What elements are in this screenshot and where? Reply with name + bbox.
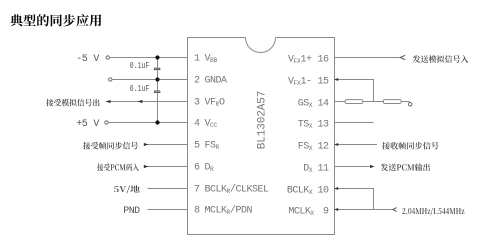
svg-text:0.1uF: 0.1uF bbox=[130, 84, 150, 94]
svg-text:15: 15 bbox=[317, 77, 329, 88]
svg-text:12: 12 bbox=[317, 142, 329, 153]
svg-text:6: 6 bbox=[194, 162, 200, 173]
svg-text:8: 8 bbox=[194, 205, 200, 216]
wire pin14 GSX bbox=[334, 101, 345, 103]
wire pin10 down to pin9 bbox=[373, 189, 375, 210]
wire pin8 bbox=[148, 209, 188, 211]
svg-text:5: 5 bbox=[194, 140, 200, 151]
svg-text:GSX: GSX bbox=[298, 99, 313, 110]
wire pin9 MCLKX bbox=[334, 209, 393, 211]
svg-text:BL1302A57: BL1302A57 bbox=[256, 91, 268, 150]
wire GNDA to pin2 bbox=[113, 79, 188, 81]
capacitor C1 0.1uF bbox=[157, 58, 159, 68]
wire pin12 FSX in bbox=[334, 144, 377, 146]
wire pin13 TSX bbox=[334, 122, 374, 124]
svg-text:BCLKR/CLKSEL: BCLKR/CLKSEL bbox=[205, 183, 270, 195]
wire +5V to pin4 bbox=[108, 122, 188, 124]
label 2.04MHz/1.544MHz bbox=[402, 208, 464, 216]
wire pin6 DR in bbox=[144, 166, 187, 168]
svg-text:DR: DR bbox=[205, 162, 215, 173]
resistor R1 bbox=[345, 100, 363, 104]
svg-text:14: 14 bbox=[317, 99, 329, 110]
svg-text:VCC: VCC bbox=[205, 118, 218, 129]
svg-text:VFX1+: VFX1+ bbox=[288, 55, 312, 66]
label 接受模拟信号出 bbox=[46, 99, 99, 107]
label 5V/地 bbox=[114, 185, 140, 193]
junction dot pin1 bbox=[155, 55, 159, 59]
wire pin3 VFRO out bbox=[106, 101, 187, 103]
label 接受PCM码入 bbox=[97, 164, 139, 172]
svg-text:3: 3 bbox=[194, 97, 200, 108]
svg-text:+5V: +5V bbox=[76, 119, 99, 130]
svg-text:16: 16 bbox=[317, 55, 329, 66]
svg-text:TSX: TSX bbox=[298, 120, 313, 131]
svg-text:0.1uF: 0.1uF bbox=[130, 61, 150, 71]
svg-text:10: 10 bbox=[317, 186, 329, 197]
svg-text:PND: PND bbox=[123, 206, 140, 217]
svg-text:VFRO: VFRO bbox=[205, 97, 226, 108]
arrow clock into pin9 bbox=[393, 208, 397, 212]
wire -5V to pin1 bbox=[109, 57, 188, 59]
wire pin10 BCLKX bbox=[334, 188, 374, 190]
svg-text:11: 11 bbox=[317, 164, 329, 175]
svg-text:MCLKX: MCLKX bbox=[288, 207, 314, 218]
junction dot pin2 bbox=[155, 77, 159, 81]
svg-text:FSX: FSX bbox=[298, 142, 313, 153]
wire R2 to terminal bbox=[401, 101, 409, 103]
svg-text:BCLKX: BCLKX bbox=[287, 186, 313, 197]
svg-text:MCLKR/PDN: MCLKR/PDN bbox=[205, 204, 253, 216]
label 接受帧同步信号 bbox=[83, 142, 138, 150]
svg-text:1: 1 bbox=[194, 53, 200, 64]
svg-text:4: 4 bbox=[194, 118, 200, 129]
svg-text:2: 2 bbox=[194, 75, 200, 86]
wire pin15 down to gain node bbox=[373, 80, 375, 102]
wire R1 to R2 bbox=[363, 101, 384, 103]
svg-text:FSR: FSR bbox=[205, 140, 220, 151]
wire pin15 VFX1- bbox=[334, 79, 374, 81]
capacitor C2 0.1uF bbox=[157, 80, 159, 91]
label 接收帧同步信号 bbox=[382, 142, 439, 150]
terminal GNDA net bbox=[109, 78, 112, 81]
svg-text:-5V: -5V bbox=[76, 54, 99, 65]
open terminal GSX end bbox=[409, 103, 412, 106]
svg-text:VFX1-: VFX1- bbox=[288, 77, 312, 88]
svg-text:DX: DX bbox=[303, 164, 313, 175]
svg-text:13: 13 bbox=[317, 120, 329, 131]
wire pin7 bbox=[148, 188, 188, 190]
arrow into pin16 bbox=[400, 55, 405, 59]
svg-text:9: 9 bbox=[323, 207, 329, 218]
svg-text:VBB: VBB bbox=[205, 53, 218, 64]
junction dot pin4 bbox=[155, 120, 159, 124]
resistor R2 bbox=[383, 100, 401, 104]
IC U1 BL1302A57 body bbox=[246, 38, 276, 53]
wire pin5 FSR in bbox=[144, 144, 187, 146]
svg-text:7: 7 bbox=[194, 184, 200, 195]
title 典型的同步应用 bbox=[10, 14, 101, 26]
wire pin16 VFX1+ bbox=[334, 57, 400, 59]
wire pin11 DX out bbox=[334, 166, 370, 168]
label 发送模拟信号入 bbox=[413, 55, 469, 63]
label 发送PCM输出 bbox=[381, 164, 430, 172]
svg-text:GNDA: GNDA bbox=[205, 75, 228, 86]
